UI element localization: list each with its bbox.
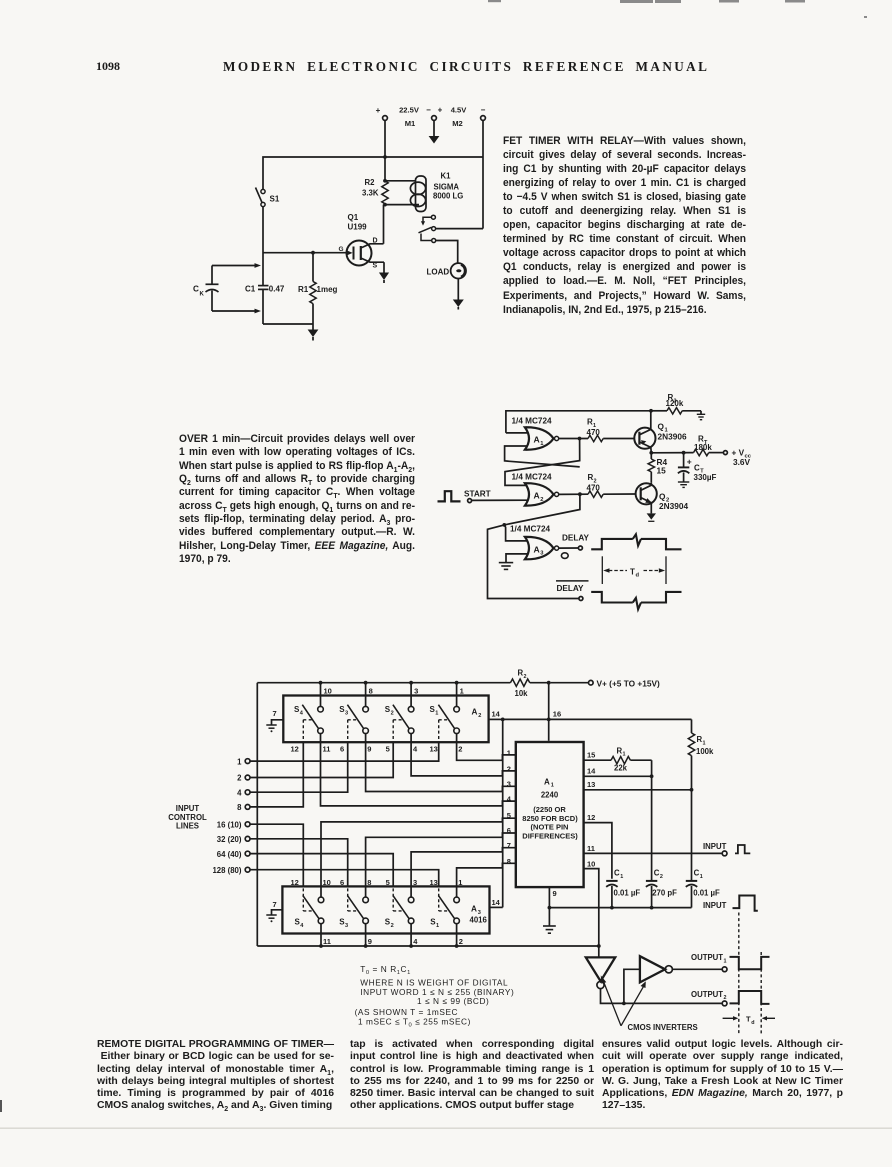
A3 pin labels top bbox=[291, 878, 463, 887]
DELAY-bar terminal bbox=[556, 581, 589, 601]
svg-text:2240: 2240 bbox=[541, 790, 559, 799]
op-gate A1 1/4 MC724 bbox=[512, 417, 559, 450]
svg-text:1: 1 bbox=[623, 752, 626, 758]
svg-text:CONTROL: CONTROL bbox=[168, 813, 207, 822]
svg-text:T: T bbox=[630, 567, 635, 576]
svg-text:7: 7 bbox=[507, 841, 511, 850]
wire inverter1 out to OUTPUT2 bbox=[601, 989, 723, 1006]
IC A1 2240 box bbox=[516, 742, 584, 887]
A2 label bbox=[472, 708, 482, 719]
svg-text:470: 470 bbox=[587, 484, 601, 493]
wire A2 pin4 to A1 pin2 bbox=[411, 734, 516, 776]
A1 pin 9 bbox=[548, 887, 557, 909]
OUTPUT2 terminal bbox=[691, 990, 727, 1006]
bottom text column 2 bbox=[350, 1039, 594, 1113]
svg-text:2: 2 bbox=[507, 764, 511, 773]
svg-text:10: 10 bbox=[323, 878, 331, 887]
bottom text column 3 bbox=[602, 1039, 843, 1113]
wire bottom bus bbox=[263, 323, 313, 325]
svg-text:9: 9 bbox=[368, 937, 372, 946]
svg-text:Q: Q bbox=[658, 421, 665, 431]
wire A1 pin6 to A3 pin8 bbox=[366, 833, 516, 897]
input terminal 2 bbox=[237, 774, 250, 783]
svg-text:3: 3 bbox=[507, 780, 511, 789]
IC A2 4016 box bbox=[283, 696, 488, 743]
svg-text:1 mSEC ≤ T0 ≤ 255 mSEC): 1 mSEC ≤ T0 ≤ 255 mSEC) bbox=[358, 1016, 471, 1028]
input terminal 8 bbox=[237, 803, 250, 812]
svg-text:5: 5 bbox=[386, 744, 390, 753]
svg-text:2N3904: 2N3904 bbox=[659, 501, 688, 511]
switch S4 (A2) bbox=[294, 705, 323, 743]
svg-text:2: 2 bbox=[540, 497, 543, 503]
svg-text:11: 11 bbox=[323, 937, 331, 946]
resistor RT 180k bbox=[694, 435, 724, 456]
A2 pin 1 top bbox=[457, 683, 464, 707]
A3 output pins to bottom bus bbox=[321, 924, 457, 946]
svg-text:S1: S1 bbox=[270, 195, 280, 204]
svg-text:3: 3 bbox=[345, 923, 348, 929]
svg-text:K1: K1 bbox=[441, 172, 452, 181]
DELAY waveform bbox=[591, 534, 681, 549]
dashed timing line 2 bbox=[760, 952, 762, 1034]
svg-text:DELAY: DELAY bbox=[562, 534, 590, 543]
svg-text:7: 7 bbox=[273, 900, 277, 909]
svg-text:8250 FOR BCD): 8250 FOR BCD) bbox=[522, 814, 578, 823]
svg-text:−: − bbox=[481, 106, 486, 115]
transistor Q1 2N3906 bbox=[634, 421, 687, 449]
ground (battery midpoint) bbox=[429, 120, 440, 143]
wire input line 32 to A3 S3 ctrl bbox=[250, 839, 348, 887]
wire M2- down right side bbox=[482, 120, 484, 228]
svg-text:−: − bbox=[426, 106, 431, 115]
wire pin14 line to R1 bbox=[503, 718, 692, 722]
wire A2 pin2 to A1 pin1 bbox=[457, 734, 516, 761]
svg-text:+: + bbox=[687, 457, 692, 467]
svg-text:1/4 MC724: 1/4 MC724 bbox=[512, 472, 552, 481]
wire top bus bbox=[257, 681, 510, 685]
svg-text:C: C bbox=[614, 869, 620, 878]
switch S1 (A3) bbox=[430, 888, 459, 929]
svg-text:1: 1 bbox=[703, 740, 706, 746]
ground (bottom) bbox=[308, 324, 319, 341]
svg-text:d: d bbox=[636, 573, 640, 579]
resistor R2 3.3K bbox=[362, 157, 388, 207]
dashed timing line 1 bbox=[738, 913, 740, 1035]
svg-text:12: 12 bbox=[587, 813, 595, 822]
terminal V+ bbox=[551, 679, 660, 689]
A1 left pin number labels bbox=[507, 748, 512, 866]
wire A1 feedback top line bbox=[506, 409, 653, 433]
svg-text:OUTPUT: OUTPUT bbox=[691, 990, 723, 999]
svg-text:A: A bbox=[472, 708, 478, 717]
switch S2 (A3) bbox=[385, 888, 414, 929]
svg-text:8: 8 bbox=[507, 857, 511, 866]
svg-text:14: 14 bbox=[492, 709, 501, 718]
op-gate A2 1/4 MC724 bbox=[512, 472, 559, 505]
ground (CT) bbox=[678, 482, 689, 487]
svg-text:100k: 100k bbox=[696, 747, 714, 756]
wire Q1 collector up bbox=[650, 411, 652, 430]
svg-text:1: 1 bbox=[620, 874, 623, 880]
svg-text:13: 13 bbox=[430, 744, 438, 753]
svg-text:T: T bbox=[746, 1015, 751, 1024]
svg-text:A: A bbox=[471, 905, 477, 914]
svg-text:2N3906: 2N3906 bbox=[658, 431, 687, 441]
transistor Q1 U199 bbox=[339, 213, 385, 270]
svg-text:3: 3 bbox=[345, 710, 348, 716]
A3 label bbox=[470, 905, 488, 925]
svg-text:S: S bbox=[373, 263, 378, 270]
svg-text:128 (80): 128 (80) bbox=[212, 866, 241, 875]
input terminal 32 bbox=[217, 835, 250, 844]
svg-text:INPUT: INPUT bbox=[703, 842, 727, 851]
book title header bbox=[223, 59, 712, 75]
A1 pin 13 line bbox=[584, 780, 694, 791]
switch S1 (A2) bbox=[430, 705, 460, 743]
resistor R1 470 bbox=[587, 417, 635, 441]
input terminal 64 bbox=[217, 850, 250, 859]
svg-text:C: C bbox=[694, 463, 700, 472]
transistor Q2 2N3904 bbox=[636, 483, 689, 511]
wire cap bottom line bbox=[549, 906, 691, 910]
INPUT pulse large bbox=[703, 896, 758, 911]
svg-text:2: 2 bbox=[459, 937, 463, 946]
svg-text:LINES: LINES bbox=[176, 822, 199, 831]
svg-text:2: 2 bbox=[724, 995, 727, 1001]
svg-text:C: C bbox=[193, 285, 199, 294]
svg-text:(2250 OR: (2250 OR bbox=[533, 805, 566, 814]
relay contacts bbox=[419, 215, 436, 242]
bottom text column 1 bbox=[97, 1039, 334, 1113]
wire input line 4 to S3 ctrl bbox=[250, 742, 348, 792]
A3 pin labels bottom bbox=[323, 937, 463, 946]
wire left vertical to gate node and C1 bbox=[262, 207, 264, 324]
svg-text:120k: 120k bbox=[666, 399, 684, 408]
svg-text:D: D bbox=[373, 238, 378, 245]
svg-text:11: 11 bbox=[587, 844, 595, 853]
wire A3 lower input to ground bbox=[506, 554, 527, 562]
wire A1 output node bbox=[505, 437, 588, 486]
svg-text:15: 15 bbox=[587, 751, 595, 760]
svg-text:4: 4 bbox=[300, 923, 304, 929]
capacitor C1 0.01uF (right) bbox=[686, 790, 720, 908]
wire A1 lower input cross-couple bbox=[505, 446, 580, 467]
switch S4 (A3) bbox=[295, 888, 324, 929]
A1 pin 11 INPUT line bbox=[584, 842, 727, 856]
svg-text:d: d bbox=[751, 1020, 754, 1026]
svg-text:1: 1 bbox=[458, 878, 462, 887]
capacitor CT 330uF bbox=[678, 453, 717, 482]
resistor R3 120k bbox=[651, 393, 701, 414]
svg-text:4016: 4016 bbox=[470, 916, 488, 925]
svg-text:3.6V: 3.6V bbox=[733, 457, 751, 467]
page number bbox=[96, 59, 120, 74]
svg-text:4: 4 bbox=[237, 788, 242, 797]
A2 pin labels bottom bbox=[291, 744, 463, 753]
IC A3 4016 box bbox=[282, 886, 489, 933]
OUTPUT2 waveform bbox=[730, 991, 770, 1004]
svg-text:330µF: 330µF bbox=[694, 473, 717, 482]
svg-text:DIFFERENCES): DIFFERENCES) bbox=[522, 831, 578, 840]
svg-text:0.01 µF: 0.01 µF bbox=[693, 889, 720, 898]
svg-text:10: 10 bbox=[324, 686, 332, 695]
svg-text:(NOTE PIN: (NOTE PIN bbox=[531, 823, 569, 832]
INPUT pulse small bbox=[735, 845, 750, 853]
svg-text:LOAD: LOAD bbox=[427, 268, 450, 277]
svg-text:Q1: Q1 bbox=[348, 213, 359, 222]
svg-text:R2: R2 bbox=[365, 178, 376, 187]
svg-text:10k: 10k bbox=[515, 689, 529, 698]
svg-text:8: 8 bbox=[237, 803, 242, 812]
label CMOS INVERTERS with leaders bbox=[601, 975, 698, 1032]
wire input line 16 to A3 S4 ctrl bbox=[250, 824, 303, 886]
wire top bus bbox=[263, 155, 483, 189]
text block 2 : OVER 1 min bbox=[179, 433, 415, 566]
OUTPUT1 terminal bbox=[691, 953, 727, 972]
svg-text:+: + bbox=[438, 106, 443, 115]
svg-text:470: 470 bbox=[587, 428, 601, 437]
formula text block bbox=[355, 964, 515, 1028]
Td dimension bbox=[602, 556, 666, 584]
svg-text:11: 11 bbox=[323, 744, 331, 753]
svg-text:C: C bbox=[694, 869, 700, 878]
wire Q1 emitter node bbox=[649, 447, 693, 454]
START pulse waveform bbox=[438, 491, 461, 501]
input terminal 128 bbox=[212, 866, 250, 875]
svg-text:V+ (+5 TO +15V): V+ (+5 TO +15V) bbox=[597, 679, 660, 689]
svg-text:U199: U199 bbox=[348, 223, 368, 232]
A1 pin 15 and resistor R1 22k bbox=[584, 746, 652, 776]
svg-text:C: C bbox=[654, 869, 660, 878]
wire input line 8 to S4 ctrl bbox=[250, 742, 303, 807]
svg-text:6: 6 bbox=[340, 878, 344, 887]
svg-text:8: 8 bbox=[367, 878, 371, 887]
capacitor C2 270pF bbox=[646, 776, 677, 907]
svg-text:22k: 22k bbox=[614, 764, 628, 773]
svg-text:1: 1 bbox=[551, 783, 554, 789]
wire input line 64 to A3 S2 ctrl bbox=[250, 854, 393, 887]
svg-text:0.01 µF: 0.01 µF bbox=[614, 889, 641, 898]
svg-text:32 (20): 32 (20) bbox=[217, 835, 242, 844]
svg-text:A: A bbox=[534, 491, 540, 501]
input terminal 4 bbox=[237, 788, 250, 797]
svg-text:M2: M2 bbox=[452, 119, 463, 128]
wire input line 1 to S1 ctrl bbox=[250, 742, 439, 761]
svg-text:Q: Q bbox=[659, 491, 666, 501]
capacitor C1 0.01uF (left) bbox=[606, 869, 640, 908]
wire contact to load bbox=[436, 241, 458, 264]
svg-text:4: 4 bbox=[413, 744, 418, 753]
svg-text:9: 9 bbox=[553, 889, 557, 898]
svg-text:5: 5 bbox=[507, 811, 511, 820]
wire feedback to DELAY-bar bbox=[488, 525, 579, 599]
svg-text:G: G bbox=[339, 246, 344, 253]
svg-text:2: 2 bbox=[660, 874, 663, 880]
load lamp bbox=[427, 263, 466, 278]
svg-text:3: 3 bbox=[414, 686, 418, 695]
svg-text:14: 14 bbox=[492, 898, 501, 907]
svg-text:12: 12 bbox=[291, 878, 299, 887]
wire A1 pin5 to A3 pin10 bbox=[321, 818, 516, 897]
svg-text:1: 1 bbox=[460, 686, 464, 695]
switch S3 (A3) bbox=[339, 888, 368, 929]
svg-text:2: 2 bbox=[391, 923, 394, 929]
svg-text:3.3K: 3.3K bbox=[362, 189, 379, 198]
wire input line 2 to S2 ctrl bbox=[250, 742, 393, 777]
resistor R2 10k bbox=[510, 669, 550, 698]
svg-text:16 (10): 16 (10) bbox=[217, 820, 242, 829]
wire contact to right bus bbox=[436, 228, 483, 230]
svg-text:1: 1 bbox=[507, 748, 511, 757]
ground (R3) bbox=[697, 411, 705, 420]
svg-text:A: A bbox=[534, 435, 540, 445]
switch S3 (A2) bbox=[339, 705, 368, 743]
A2 pin 14 bbox=[489, 709, 505, 721]
svg-text:22.5V: 22.5V bbox=[399, 106, 420, 115]
A1 box text bbox=[522, 777, 578, 840]
wire V+ down to pin 16 bbox=[549, 683, 561, 741]
svg-text:1/4 MC724: 1/4 MC724 bbox=[512, 417, 552, 426]
svg-text:K: K bbox=[200, 292, 205, 298]
svg-text:0.47: 0.47 bbox=[269, 284, 285, 293]
switch S2 (A2) bbox=[385, 705, 414, 743]
svg-text:1 ≤ N ≤ 99 (BCD): 1 ≤ N ≤ 99 (BCD) bbox=[417, 996, 489, 1006]
wire bottom bus bbox=[257, 944, 600, 948]
wire left bus bbox=[256, 683, 258, 946]
Td dimension (circuit 3) bbox=[723, 1015, 775, 1026]
input terminal 1 bbox=[237, 757, 250, 766]
svg-text:DELAY: DELAY bbox=[557, 584, 585, 593]
svg-text:1/4 MC724: 1/4 MC724 bbox=[510, 525, 550, 534]
svg-text:OUTPUT: OUTPUT bbox=[691, 953, 723, 962]
wire Q1 drain up bbox=[383, 205, 385, 244]
DELAY-bar waveform bbox=[591, 592, 681, 609]
svg-text:9: 9 bbox=[367, 744, 371, 753]
svg-text:M1: M1 bbox=[405, 119, 416, 128]
svg-text:13: 13 bbox=[430, 878, 438, 887]
svg-text:14: 14 bbox=[587, 767, 596, 776]
inverter 2 bbox=[624, 956, 673, 1003]
svg-text:+: + bbox=[376, 106, 381, 115]
svg-text:3: 3 bbox=[413, 878, 417, 887]
wire Q2 collector to R4 bbox=[650, 483, 652, 486]
svg-text:1: 1 bbox=[724, 958, 727, 964]
battery M1 bbox=[376, 106, 437, 129]
wire input line 128 to A3 S1 ctrl bbox=[250, 870, 439, 887]
svg-text:1: 1 bbox=[436, 923, 439, 929]
svg-text:2: 2 bbox=[458, 744, 462, 753]
svg-text:INPUT: INPUT bbox=[176, 804, 200, 813]
terminal +Vcc bbox=[723, 448, 751, 467]
capacitor C1 0.47 bbox=[245, 284, 285, 293]
A1 pin 10 line bbox=[584, 860, 599, 946]
text block 1 : FET TIMER WITH RELAY bbox=[503, 134, 746, 317]
wire A2 pin9 to A1 pin3 bbox=[366, 734, 516, 792]
svg-text:6: 6 bbox=[340, 744, 344, 753]
svg-text:START: START bbox=[464, 489, 491, 498]
ground (Q1 source) bbox=[379, 262, 389, 283]
label input control lines bbox=[168, 804, 207, 831]
svg-text:4: 4 bbox=[413, 937, 418, 946]
svg-text:64 (40): 64 (40) bbox=[217, 850, 242, 859]
svg-text:5: 5 bbox=[386, 878, 390, 887]
wire A2 out to A3 input bbox=[504, 525, 527, 541]
svg-text:INPUT: INPUT bbox=[703, 901, 727, 910]
svg-text:180k: 180k bbox=[694, 443, 712, 452]
op-gate A3 1/4 MC724 bbox=[510, 525, 559, 560]
svg-text:A: A bbox=[534, 544, 540, 554]
wire A2 pin11 to A1 pin4 bbox=[321, 734, 516, 806]
resistor R2 470 bbox=[587, 473, 636, 497]
svg-text:A: A bbox=[544, 777, 550, 786]
svg-text:10: 10 bbox=[587, 860, 595, 869]
battery M2 bbox=[438, 106, 486, 129]
resistor R1 100k bbox=[688, 719, 714, 789]
A2 pin 10 top bbox=[321, 683, 332, 707]
svg-text:SIGMA: SIGMA bbox=[434, 183, 460, 192]
svg-text:R1: R1 bbox=[298, 285, 309, 294]
svg-text:16: 16 bbox=[553, 709, 561, 718]
svg-text:270 pF: 270 pF bbox=[652, 889, 677, 898]
svg-text:(AS SHOWN T = 1mSEC: (AS SHOWN T = 1mSEC bbox=[355, 1007, 459, 1017]
wire A1 pin8 to A3 pin1 bbox=[457, 863, 516, 897]
svg-text:7: 7 bbox=[273, 709, 277, 718]
DELAY output terminal bbox=[559, 534, 590, 559]
resistor R1 1meg bbox=[298, 253, 338, 324]
svg-text:8000 LG: 8000 LG bbox=[433, 192, 463, 201]
svg-text:4.5V: 4.5V bbox=[451, 106, 468, 115]
inverter 1 bbox=[586, 946, 615, 989]
svg-text:2: 2 bbox=[478, 713, 481, 719]
capacitor CK bbox=[193, 263, 261, 313]
svg-text:8: 8 bbox=[369, 686, 373, 695]
A2 pin 7 ground bbox=[266, 709, 283, 732]
svg-text:2: 2 bbox=[391, 710, 394, 716]
svg-text:1: 1 bbox=[700, 874, 703, 880]
OUTPUT1 waveform bbox=[730, 957, 770, 969]
svg-text:13: 13 bbox=[587, 780, 595, 789]
svg-text:12: 12 bbox=[291, 744, 299, 753]
ground (A3 input) bbox=[499, 563, 513, 570]
wire M1+ down bbox=[384, 120, 386, 157]
svg-text:15: 15 bbox=[657, 465, 667, 475]
wire inverter2 out to OUTPUT1 bbox=[672, 968, 722, 970]
svg-text:C1: C1 bbox=[245, 284, 256, 293]
svg-text:1meg: 1meg bbox=[317, 285, 338, 294]
svg-text:1: 1 bbox=[435, 710, 438, 716]
ground (load) bbox=[453, 279, 464, 310]
A2 pin 8 top bbox=[366, 683, 373, 707]
svg-text:2: 2 bbox=[237, 774, 242, 783]
input terminal 16 bbox=[217, 820, 250, 829]
ground (Q2 emitter) bbox=[647, 503, 656, 522]
wire A1 pin7 to A3 pin3 bbox=[411, 848, 516, 897]
wire gate node bbox=[263, 251, 347, 255]
A3 pin 14 bbox=[490, 719, 503, 907]
svg-text:6: 6 bbox=[507, 826, 511, 835]
relay K1 coil bbox=[385, 172, 463, 212]
A3 pin 7 ground bbox=[266, 900, 282, 923]
svg-text:CMOS INVERTERS: CMOS INVERTERS bbox=[628, 1023, 698, 1032]
svg-text:2: 2 bbox=[524, 674, 527, 680]
A1 pin 14 line bbox=[584, 767, 654, 779]
svg-text:T0 = N R1C1: T0 = N R1C1 bbox=[360, 964, 411, 976]
START terminal bbox=[464, 489, 527, 502]
svg-text:4: 4 bbox=[507, 794, 512, 803]
svg-text:1: 1 bbox=[237, 757, 242, 766]
A1 pin 12 line bbox=[584, 813, 612, 879]
A2 pin 3 top bbox=[411, 683, 418, 707]
